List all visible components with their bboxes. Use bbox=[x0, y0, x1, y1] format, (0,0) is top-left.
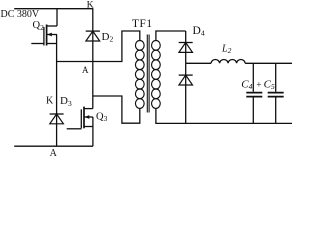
svg-text:TF1: TF1 bbox=[132, 18, 153, 30]
svg-text:L2: L2 bbox=[221, 44, 232, 56]
wire: DC- bottom rail bbox=[14, 145, 93, 147]
wire: primary winding bottom to Q3 drain net bbox=[93, 96, 140, 123]
wire: node A rail, Q2 source to transformer primary top bbox=[57, 31, 140, 62]
transistor Q3 (low-side MOSFET) bbox=[81, 107, 107, 129]
svg-text:+: + bbox=[256, 81, 261, 91]
capacitor C5 (output filter) bbox=[264, 63, 284, 123]
svg-text:K: K bbox=[46, 96, 54, 107]
svg-text:C5: C5 bbox=[264, 79, 275, 92]
wire: Q2 source / D3 cathode vertical (down to bottom rail) bbox=[56, 35, 58, 147]
diode D5 (freewheeling diode, unlabeled) bbox=[179, 63, 193, 123]
wire: Q3 source down to bottom rail bbox=[92, 117, 94, 146]
wire: secondary bottom / output ground rail bbox=[156, 108, 292, 123]
wire: top rail to Q2 drain bbox=[56, 9, 58, 26]
wire: secondary top lead to D4 bbox=[156, 31, 186, 41]
diode D4 (rectifier) bbox=[179, 25, 205, 63]
primary winding: 7 stacked loops bbox=[135, 41, 144, 109]
wire: output line from D4 junction to L2 bbox=[186, 62, 211, 64]
svg-text:DC 380V: DC 380V bbox=[1, 9, 40, 20]
svg-text:A: A bbox=[82, 65, 89, 75]
svg-text:D3: D3 bbox=[60, 95, 72, 108]
diode D2 (clamp diode, cathode up to K) bbox=[86, 31, 114, 44]
capacitor C4 (output filter) bbox=[241, 63, 262, 123]
svg-text:C4: C4 bbox=[241, 79, 252, 92]
svg-text:D4: D4 bbox=[193, 25, 205, 38]
svg-text:D2: D2 bbox=[102, 31, 114, 44]
core lines bbox=[146, 35, 148, 113]
secondary winding: 7 stacked loops bbox=[152, 41, 161, 109]
inductor L2 bbox=[211, 44, 245, 64]
wire: Q2 gate lead bbox=[31, 43, 44, 45]
wire: Q3 gate lead bbox=[67, 128, 82, 130]
wire: output line from L2 to right edge bbox=[245, 62, 292, 64]
svg-text:A: A bbox=[50, 148, 58, 156]
transistor Q2 (high-side MOSFET) bbox=[33, 20, 58, 45]
wire: DC+ top rail bbox=[14, 8, 93, 10]
svg-text:Q3: Q3 bbox=[96, 111, 108, 123]
wire: K vertical, top rail through D2 to Q3 drain bbox=[92, 9, 94, 109]
diode D3 (clamp diode, anode at DC- rail) bbox=[50, 95, 72, 124]
svg-text:Q2: Q2 bbox=[33, 20, 45, 32]
transformer TF1 bbox=[132, 18, 160, 113]
